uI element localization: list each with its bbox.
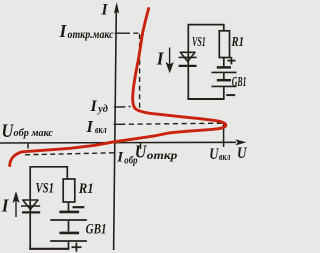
svg-text:GB1: GB1	[232, 74, 247, 89]
svg-text:U: U	[135, 142, 147, 162]
wire battery to bottom (lower)	[68, 242, 70, 249]
svg-text:I: I	[101, 2, 109, 19]
svg-text:GB1: GB1	[86, 221, 107, 237]
red I-V characteristic curve	[10, 9, 226, 166]
dinistor VS1 (lower inset)	[21, 200, 40, 212]
wire top (lower inset)	[30, 167, 67, 249]
svg-text:обр макс: обр макс	[14, 127, 54, 139]
svg-text:откр: откр	[147, 148, 178, 162]
U_otkr tick	[140, 143, 142, 150]
svg-text:вкл: вкл	[219, 152, 231, 163]
svg-text:вкл: вкл	[95, 124, 107, 136]
wire bottom (lower)	[29, 248, 69, 250]
label minus (upper inset)	[226, 94, 235, 96]
dashed I_obr line	[25, 153, 114, 155]
I axis arrowhead	[114, 2, 119, 14]
tick + dashes I_ud	[114, 106, 131, 109]
wire top (upper inset)	[188, 25, 224, 99]
svg-text:R1: R1	[231, 35, 244, 50]
svg-text:U: U	[237, 145, 247, 162]
svg-text:I: I	[1, 196, 10, 216]
U_vkl vertical tick line	[223, 122, 225, 148]
U axis arrowhead	[236, 139, 247, 145]
svg-text:U: U	[209, 146, 219, 163]
battery GB1 plates (lower)	[59, 211, 79, 214]
U axis (horizontal)	[0, 141, 236, 144]
current arrow I (lower inset)	[14, 194, 19, 218]
label + (upper inset)	[228, 57, 236, 65]
wire resistor to battery (upper)	[223, 58, 225, 67]
svg-text:I: I	[90, 98, 98, 115]
tick + dashed line I_otkr.maks	[115, 32, 140, 34]
svg-text:VS1: VS1	[192, 35, 206, 50]
tick + dashed line I_vkl	[114, 123, 222, 124]
label + (lower inset)	[72, 243, 82, 252]
resistor R1 (lower)	[63, 179, 75, 202]
wire battery to bottom (upper)	[223, 87, 225, 99]
svg-text:I: I	[116, 150, 124, 166]
resistor R1 (upper)	[219, 31, 229, 58]
svg-text:I: I	[86, 117, 94, 136]
dashed vertical U_otkr guide	[139, 34, 141, 111]
battery GB1 plates (upper)	[217, 66, 231, 69]
svg-text:R1: R1	[78, 181, 94, 197]
dinistor VS1 (upper inset)	[179, 52, 197, 66]
svg-text:уд: уд	[96, 103, 108, 115]
wire bottom (upper)	[187, 98, 224, 100]
svg-text:I: I	[59, 21, 68, 41]
svg-text:VS1: VS1	[36, 181, 55, 197]
label minus (lower inset)	[73, 206, 85, 208]
wire resistor to battery (lower)	[68, 202, 70, 211]
current arrow I (upper inset)	[167, 48, 173, 72]
I axis (vertical)	[114, 9, 117, 250]
U_obr.maks tick	[27, 143, 29, 149]
svg-text:I: I	[156, 49, 165, 69]
svg-text:откр.макс: откр.макс	[68, 29, 114, 41]
